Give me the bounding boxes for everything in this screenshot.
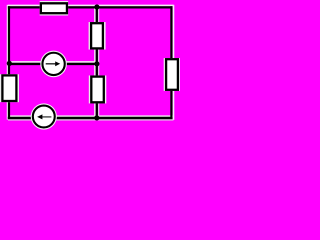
wire left: [8, 6, 10, 119]
wire right (halo): [173, 5, 175, 120]
wire middle-branch vertical (halo right): [98, 6, 100, 117]
wire middle-branch vertical (halo left): [94, 6, 96, 117]
wire top (halo): [8, 4, 174, 6]
wire left (halo): [6, 5, 8, 120]
wire bottom: [8, 117, 173, 119]
resistor R4 (left vertical): [0, 74, 19, 102]
current source I1 (middle, arrow right): [40, 51, 67, 78]
wire middle: [9, 63, 98, 65]
wire top: [8, 6, 173, 8]
wire middle-branch vertical: [96, 7, 98, 118]
node C: junction middle wire / middle branch: [94, 61, 99, 66]
wire middle (halo): [8, 61, 95, 63]
resistor R3 (middle branch lower): [89, 75, 107, 103]
node A: junction left-wire / middle wire: [7, 61, 12, 66]
wire bottom (halo below): [8, 119, 174, 121]
resistor R1 (top horizontal): [40, 1, 68, 16]
resistor R2 (middle branch upper): [89, 22, 106, 50]
node B: junction top wire / middle branch: [94, 4, 99, 9]
wire right: [170, 6, 172, 119]
wire bottom (halo above): [8, 115, 174, 117]
node D: junction bottom wire / middle branch: [94, 115, 99, 120]
resistor R5 (right vertical): [164, 58, 180, 91]
current source I2 (bottom, arrow left): [31, 103, 57, 129]
